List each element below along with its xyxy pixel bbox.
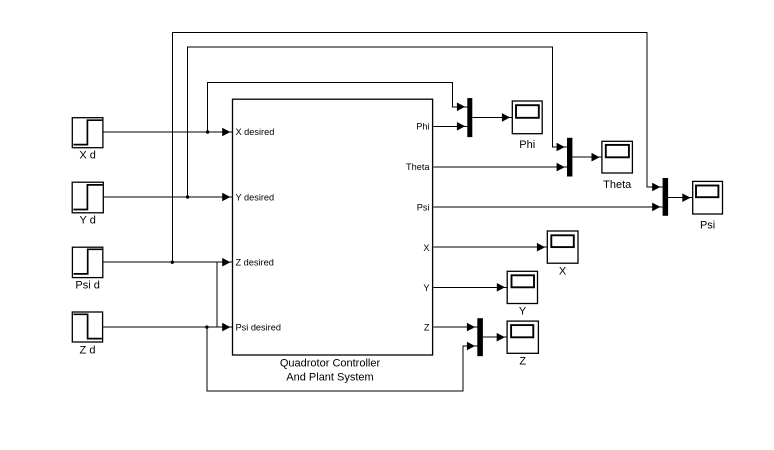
scope X — [547, 231, 578, 278]
arrow into Phi scope — [502, 113, 510, 122]
mux Mux Psi — [663, 178, 669, 216]
arrow into Psi scope — [682, 193, 690, 202]
step source Z d (step down) — [72, 312, 102, 357]
wire X output to X scope — [434, 246, 548, 248]
wire Theta output to Theta mux input 2 — [434, 166, 568, 168]
junction on X d wire — [206, 130, 209, 133]
scope Phi — [512, 101, 542, 151]
wire Psi d to Psi desired port (jog down at x=217) — [103, 262, 233, 327]
arrow into X scope — [537, 243, 545, 252]
input port arrow Psi desired — [222, 323, 230, 332]
wire Z d feedback to Z mux input 2 (around bottom) — [207, 327, 477, 391]
svg-text:X: X — [559, 266, 567, 278]
subsystem block Quadrotor Controller And Plant System — [233, 99, 433, 383]
wire Phi output to Phi mux input 2 — [434, 125, 468, 127]
wire Phi mux output to Phi scope — [472, 116, 512, 118]
mux Mux Phi — [467, 98, 472, 137]
arrow into Theta mux input 2 — [557, 163, 565, 172]
arrow into Z mux input 2 — [467, 342, 475, 351]
svg-text:X desired: X desired — [236, 127, 275, 137]
arrow into Phi mux input 2 — [457, 122, 465, 131]
svg-text:Psi d: Psi d — [75, 280, 99, 292]
svg-text:X: X — [423, 243, 429, 253]
input port arrow Y desired — [222, 193, 230, 202]
wire Psi d branch to Psi mux input 1 — [172, 32, 662, 262]
input port arrow X desired — [222, 128, 230, 137]
svg-text:And Plant System: And Plant System — [286, 372, 373, 384]
junction on Y d wire — [186, 195, 189, 198]
svg-text:Y: Y — [423, 283, 429, 293]
arrow into Phi mux input 1 — [457, 103, 465, 112]
svg-text:Z d: Z d — [80, 345, 96, 357]
svg-text:Psi: Psi — [700, 220, 715, 232]
wire X d to X desired port — [103, 131, 233, 133]
scope Theta — [602, 141, 633, 191]
svg-text:Phi: Phi — [519, 139, 535, 151]
svg-text:Z: Z — [519, 356, 526, 368]
svg-text:Theta: Theta — [603, 179, 632, 191]
svg-text:Z: Z — [424, 322, 430, 332]
wire Psi mux output to Psi scope — [668, 197, 693, 199]
wire Psi output to Psi mux input 2 — [434, 206, 663, 208]
scope Z — [507, 321, 538, 367]
wire Y d to Y desired port — [103, 196, 232, 198]
svg-text:Y d: Y d — [80, 215, 96, 227]
wire Theta mux output to Theta scope — [572, 156, 602, 158]
wire Z d to Z desired port (jog up at x=217) — [103, 262, 233, 327]
wire X d branch to Phi mux input 1 — [208, 83, 468, 133]
svg-text:Theta: Theta — [406, 162, 430, 172]
svg-text:Psi desired: Psi desired — [236, 323, 281, 333]
arrow into Theta scope — [592, 153, 600, 162]
svg-text:Y: Y — [519, 306, 527, 318]
svg-text:Z desired: Z desired — [236, 257, 274, 267]
svg-text:Psi: Psi — [417, 202, 430, 212]
wire Z mux output to Z scope — [483, 336, 507, 338]
arrow into Z mux input 1 — [467, 323, 475, 332]
input port arrow Z desired — [222, 258, 230, 267]
mux Mux Z — [477, 318, 483, 356]
svg-text:X d: X d — [79, 150, 96, 162]
arrow into Theta mux input 1 — [557, 143, 565, 152]
wire Y d branch to Theta mux input 1 — [188, 47, 567, 197]
step source Y d — [72, 182, 103, 226]
svg-text:Quadrotor Controller: Quadrotor Controller — [280, 358, 381, 370]
scope Y — [507, 271, 537, 317]
arrow into Y scope — [497, 283, 505, 292]
arrow into Z scope — [497, 333, 505, 342]
scope Psi — [693, 181, 723, 231]
junction on Psi d wire — [171, 261, 174, 264]
junction on Z d wire — [205, 325, 208, 328]
arrow into Psi mux input 1 — [652, 183, 660, 192]
wire Z output to Z mux input 1 — [434, 326, 478, 328]
svg-text:Phi: Phi — [416, 122, 429, 132]
mux Mux Theta — [567, 138, 572, 177]
svg-text:Y desired: Y desired — [236, 192, 275, 202]
wire Y output to Y scope — [434, 286, 508, 288]
step source Psi d — [72, 247, 102, 291]
step source X d — [72, 118, 103, 162]
arrow into Psi mux input 2 — [652, 203, 660, 212]
